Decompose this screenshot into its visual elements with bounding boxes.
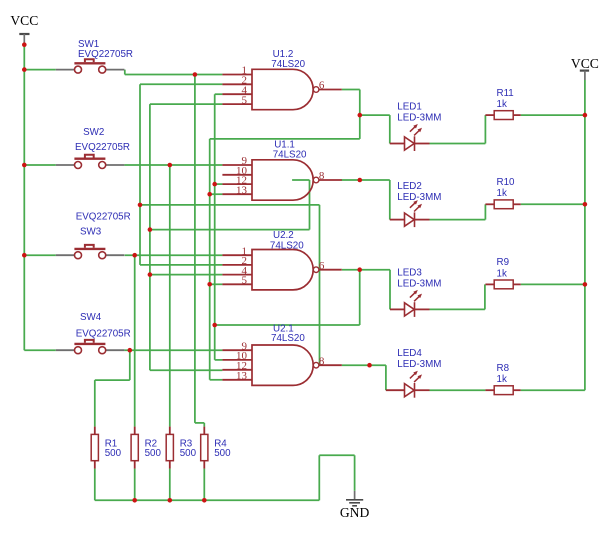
svg-text:EVQ22705R: EVQ22705R bbox=[76, 329, 131, 340]
wire O2 to U2.2 pin 4 bbox=[150, 274, 223, 276]
svg-text:13: 13 bbox=[236, 184, 248, 196]
junction rail R11 bbox=[583, 113, 588, 118]
op-amp substitute: 4-input NAND gate U2.1 74LS20 bbox=[222, 323, 341, 385]
junction rail SW2 bbox=[22, 163, 27, 168]
op-amp substitute: 4-input NAND gate U1.2 74LS20 bbox=[222, 49, 341, 109]
resistor R3 bbox=[166, 427, 196, 469]
junction N1 bbox=[193, 72, 198, 77]
LED LED3 bbox=[390, 267, 441, 317]
junction O1 pin5 bbox=[207, 282, 212, 287]
wire R11 to VCC rail bbox=[521, 114, 585, 116]
wire O1 branch to LED1 bbox=[360, 114, 390, 116]
svg-text:500: 500 bbox=[180, 448, 197, 459]
svg-text:500: 500 bbox=[105, 448, 122, 459]
wire N2 to U1.1 pin 9 bbox=[124, 164, 222, 166]
svg-text:8: 8 bbox=[319, 170, 325, 182]
resistor R10 bbox=[485, 177, 520, 209]
wire N4 left to R1 bbox=[95, 379, 130, 381]
wire VCC rail to SW2 bbox=[24, 164, 56, 166]
junction O4 LED branch bbox=[367, 363, 372, 368]
junction rail R9 bbox=[583, 282, 588, 287]
resistor R2 bbox=[131, 427, 161, 469]
svg-text:1k: 1k bbox=[497, 374, 507, 385]
wire O3 to U1.2 pin 4 bbox=[215, 93, 223, 95]
svg-text:SW3: SW3 bbox=[80, 227, 102, 238]
wire O3 to U1.1 pin 12 bbox=[215, 183, 223, 185]
svg-text:EVQ22705R: EVQ22705R bbox=[75, 142, 130, 153]
wire LED1 to R11 jog bbox=[430, 143, 486, 145]
svg-text:74LS20: 74LS20 bbox=[271, 333, 305, 344]
junction O2 LED branch bbox=[358, 178, 363, 183]
svg-text:6: 6 bbox=[319, 260, 325, 272]
wire N4 to U2.1 pin 9 bbox=[124, 349, 222, 351]
wire O4 branch to LED4 bbox=[370, 364, 386, 366]
svg-text:LED3: LED3 bbox=[397, 267, 422, 278]
svg-text:R8: R8 bbox=[497, 363, 510, 374]
junction O2 row bbox=[148, 227, 153, 232]
junction O4 row bbox=[138, 203, 143, 208]
junction rail SW3 bbox=[22, 253, 27, 258]
svg-text:6: 6 bbox=[319, 80, 325, 92]
wire N1 to U1.2 pin 1 bbox=[125, 74, 223, 76]
wire GND rail down to symbol bbox=[354, 455, 356, 491]
wire N1 jog down at SW1 bbox=[124, 70, 126, 75]
svg-text:5: 5 bbox=[242, 275, 248, 287]
svg-text:LED2: LED2 bbox=[397, 181, 422, 192]
svg-text:74LS20: 74LS20 bbox=[273, 149, 307, 160]
svg-text:R11: R11 bbox=[497, 88, 514, 99]
wire O1 down bbox=[359, 90, 361, 139]
svg-text:GND: GND bbox=[340, 505, 370, 520]
wire R2 bottom to GND rail bbox=[134, 469, 136, 501]
junction VCC left bbox=[22, 42, 27, 47]
svg-text:8: 8 bbox=[319, 355, 325, 367]
wire up to R10 bbox=[484, 204, 486, 219]
junction rail SW1 bbox=[22, 67, 27, 72]
ground symbol GND bbox=[340, 491, 370, 520]
svg-text:LED-3MM: LED-3MM bbox=[397, 359, 441, 370]
wire O3 from U2.2 output bbox=[342, 269, 390, 271]
svg-text:LED-3MM: LED-3MM bbox=[397, 112, 441, 123]
wire R8 to VCC rail bbox=[521, 389, 585, 391]
junction O3 row bbox=[212, 323, 217, 328]
junction N3 bbox=[132, 253, 137, 258]
wire O4 to U1.2 pin 2 bbox=[140, 83, 222, 85]
svg-text:LED-3MM: LED-3MM bbox=[397, 192, 441, 203]
LED LED1 bbox=[390, 101, 442, 151]
wire O1 feedback vertical bbox=[209, 139, 211, 380]
wire VCC left rail vertical bbox=[23, 45, 25, 351]
switch SW2 bbox=[56, 127, 130, 169]
junction gnd R2 bbox=[132, 498, 137, 503]
wire O2 down under gate bbox=[309, 180, 311, 230]
wire O4 down to LED4 bbox=[385, 365, 387, 390]
wire O2 feedback row bbox=[150, 229, 310, 231]
wire N4 into R1 top bbox=[94, 380, 96, 427]
wire N3 to U2.2 pin 1 bbox=[125, 254, 223, 256]
svg-text:LED-3MM: LED-3MM bbox=[397, 278, 441, 289]
svg-text:500: 500 bbox=[145, 448, 162, 459]
svg-text:SW2: SW2 bbox=[83, 127, 104, 138]
wire O2 under gate bbox=[292, 179, 309, 181]
wire LED3 to R9 jog bbox=[430, 308, 485, 310]
junction gnd R3 bbox=[168, 498, 173, 503]
junction O3 pin12 bbox=[212, 182, 217, 187]
LED LED4 bbox=[386, 348, 441, 398]
wire O4 feedback row bbox=[140, 204, 320, 206]
op-amp substitute: 4-input NAND gate U2.2 74LS20 bbox=[222, 230, 341, 290]
svg-text:500: 500 bbox=[214, 448, 231, 459]
junction O3 LED branch bbox=[357, 267, 362, 272]
wire N1 into R4 top bbox=[203, 423, 205, 427]
svg-text:SW4: SW4 bbox=[80, 312, 102, 323]
svg-text:R9: R9 bbox=[497, 257, 510, 268]
VCC supply symbol left bbox=[10, 13, 38, 45]
wire VCC right rail vertical bbox=[584, 80, 586, 390]
VCC supply symbol right bbox=[571, 56, 599, 80]
resistor R4 bbox=[201, 427, 231, 469]
wire O1 to U2.2 pin 5 bbox=[210, 283, 223, 285]
svg-text:74LS20: 74LS20 bbox=[270, 240, 304, 251]
junction N4 bbox=[128, 348, 133, 353]
junction gnd R4 bbox=[202, 498, 207, 503]
wire O1 down to LED1 bbox=[389, 115, 391, 143]
svg-text:1k: 1k bbox=[497, 99, 507, 110]
switch SW3 bbox=[56, 211, 131, 258]
wire VCC rail to SW4 bbox=[24, 349, 56, 351]
wire R1 bottom to GND rail bbox=[94, 469, 96, 501]
junction rail R10 bbox=[583, 202, 588, 207]
wire R4 bottom to GND rail bbox=[203, 469, 205, 501]
wire O4 from U2.1 output bbox=[342, 364, 370, 366]
svg-text:EVQ22705R: EVQ22705R bbox=[76, 211, 131, 222]
wire up to R9 bbox=[484, 284, 486, 309]
wire O1 from U1.2 output bbox=[342, 89, 360, 91]
svg-text:1k: 1k bbox=[497, 268, 507, 279]
wire O4 vertical to U2.1 output bbox=[319, 205, 321, 365]
wire O2 to U1.2 pin 5 bbox=[150, 103, 223, 105]
wire N3 vertical to R2 bbox=[134, 255, 136, 426]
wire VCC rail to SW1 bbox=[24, 69, 56, 71]
wire O2 to U2.1 pin 12 bbox=[150, 369, 223, 371]
junction O1 LED branch bbox=[358, 113, 363, 118]
svg-text:5: 5 bbox=[242, 94, 248, 106]
wire N1 jog right to R4 bbox=[195, 422, 204, 424]
wire R9 to VCC rail bbox=[521, 283, 585, 285]
wire O3 to U2.1 pin 10 bbox=[215, 359, 223, 361]
svg-text:VCC: VCC bbox=[571, 56, 599, 71]
svg-text:VCC: VCC bbox=[10, 13, 38, 28]
wire O3 down bbox=[359, 270, 361, 325]
wire O1 to U1.1 pin 13 bbox=[210, 193, 223, 195]
wire O1 feedback row bbox=[210, 138, 360, 140]
wire GND rail up jog bbox=[318, 455, 320, 500]
wire LED4 to R8 bbox=[430, 389, 486, 391]
junction O1 pin13 bbox=[207, 192, 212, 197]
wire O3 feedback row bbox=[215, 324, 360, 326]
LED LED2 bbox=[390, 181, 442, 227]
op-amp substitute: 4-input NAND gate U1.1 74LS20 bbox=[222, 140, 341, 201]
wire LED2 to R10 jog bbox=[430, 219, 486, 221]
resistor R9 bbox=[485, 257, 520, 289]
wire O4 feedback vertical bbox=[139, 84, 141, 265]
svg-text:LED1: LED1 bbox=[397, 101, 422, 112]
wire O4 to U2.2 pin 2 bbox=[140, 264, 222, 266]
wire GND bottom rail bbox=[95, 499, 319, 501]
wire O3 down to LED3 bbox=[389, 270, 391, 310]
svg-text:LED4: LED4 bbox=[397, 348, 422, 359]
svg-text:1k: 1k bbox=[497, 188, 507, 199]
switch SW1 bbox=[56, 39, 133, 73]
svg-text:EVQ22705R: EVQ22705R bbox=[78, 49, 133, 60]
wire O2 feedback vertical bbox=[149, 104, 151, 370]
switch SW4 bbox=[56, 312, 131, 354]
wire up to R11 bbox=[484, 115, 486, 143]
wire O3 feedback vertical bbox=[214, 94, 216, 360]
wire VCC rail to SW3 bbox=[24, 254, 56, 256]
wire O1 to U2.1 pin 13 bbox=[210, 379, 223, 381]
wire O2 to LED2 branch bbox=[341, 179, 389, 181]
junction O2 pin4 bbox=[148, 272, 153, 277]
wire N2 vertical to R3 bbox=[169, 165, 171, 427]
svg-text:13: 13 bbox=[236, 370, 248, 382]
junction N2 bbox=[168, 163, 173, 168]
wire R10 to VCC rail bbox=[521, 203, 585, 205]
resistor R1 bbox=[91, 427, 121, 469]
resistor R11 bbox=[485, 88, 520, 120]
resistor R8 bbox=[485, 363, 520, 395]
wire N1 vertical to R4 bbox=[194, 75, 196, 423]
wire GND rail right jog bbox=[319, 454, 354, 456]
wire O2 down to LED2 bbox=[389, 180, 391, 220]
wire R3 bottom to GND rail bbox=[169, 469, 171, 501]
wire N4 down bbox=[129, 350, 131, 380]
svg-text:R10: R10 bbox=[497, 177, 516, 188]
svg-text:74LS20: 74LS20 bbox=[271, 59, 305, 70]
